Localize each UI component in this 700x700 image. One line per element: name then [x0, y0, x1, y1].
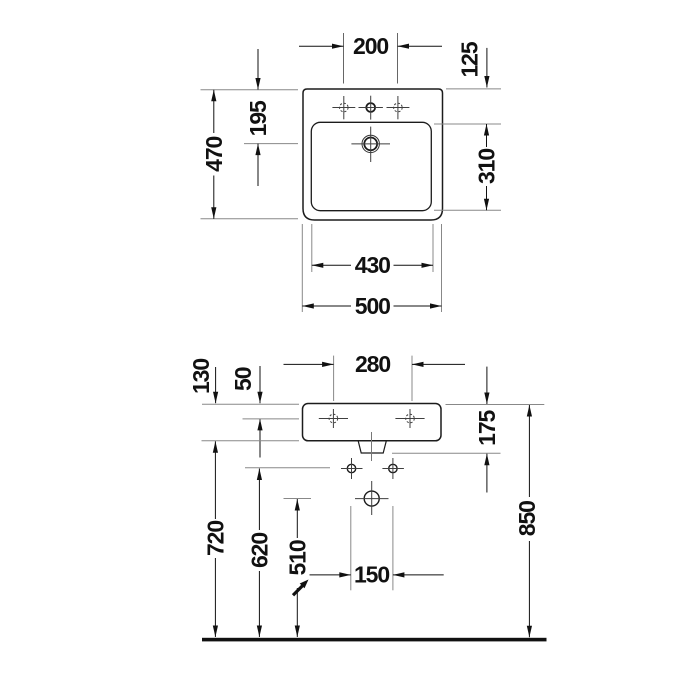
- svg-text:50: 50: [230, 367, 256, 391]
- extension line basin bottom level left: [202, 440, 300, 442]
- main outlet circle: [355, 481, 389, 515]
- faucet hole right (dashed): [387, 96, 410, 119]
- dimension 280 leaders and arrows: [284, 362, 466, 367]
- faucet hole center: [359, 96, 383, 120]
- svg-text:200: 200: [353, 33, 388, 59]
- dimension 850 line and arrows: [527, 405, 532, 637]
- svg-text:130: 130: [188, 359, 214, 394]
- supply connection right: [382, 458, 404, 479]
- extension line basin top right: [446, 88, 501, 90]
- svg-text:280: 280: [355, 351, 390, 377]
- dimension 310 extension lines: [434, 124, 501, 210]
- mounting hole left (dashed cross): [319, 409, 348, 428]
- extension line trapezoid bottom level right: [392, 452, 501, 454]
- faucet hole left (dashed): [332, 96, 355, 119]
- svg-text:150: 150: [354, 562, 389, 588]
- extension line mounting hole level left: [243, 418, 300, 420]
- svg-text:850: 850: [514, 501, 540, 536]
- extension line elevation top right: [446, 404, 545, 406]
- drain trapezoid: [358, 441, 386, 453]
- dimension 500 line and arrows: [302, 303, 441, 308]
- svg-text:430: 430: [355, 252, 390, 278]
- dimension 720 line and arrows: [213, 441, 218, 637]
- dimension 50 lower line: [257, 419, 262, 458]
- svg-text:310: 310: [474, 149, 500, 184]
- supply connection left: [341, 458, 363, 479]
- dimension 470 line and arrows: [211, 90, 216, 219]
- outer basin outline: [303, 89, 443, 220]
- dimension 195 upper segment: [255, 49, 260, 90]
- dimension 130 line: [213, 367, 218, 403]
- dimension 125 line: [484, 48, 489, 88]
- dimension 150 extension lines: [351, 506, 393, 590]
- svg-text:720: 720: [202, 521, 228, 556]
- dimension 195 lower segment: [255, 144, 260, 186]
- floor line: [202, 638, 547, 642]
- svg-text:500: 500: [355, 293, 390, 319]
- dimension 150 leaders and arrows: [310, 572, 444, 577]
- dimension 500 extension lines: [302, 224, 441, 312]
- mounting hole right (dashed cross): [395, 409, 424, 428]
- dimension 200 leaders and arrows: [299, 44, 442, 49]
- dimension 310 line and arrows: [484, 124, 489, 210]
- extension line elevation top left: [202, 403, 299, 405]
- inner bowl outline: [311, 122, 431, 210]
- svg-text:125: 125: [457, 41, 483, 77]
- dimension 430 extension lines: [312, 224, 433, 272]
- dimension 430 line and arrows: [312, 263, 433, 268]
- basin front profile: [303, 404, 442, 441]
- svg-text:195: 195: [245, 100, 271, 136]
- dimension 620 line and arrows: [257, 469, 262, 638]
- dimension 175 upper line: [484, 367, 489, 404]
- dimension 50 upper line: [257, 366, 262, 403]
- svg-text:620: 620: [246, 533, 272, 568]
- dimension 510 line and arrows: [295, 499, 300, 637]
- dimension 175 lower line: [484, 454, 489, 493]
- drain center line: [371, 432, 373, 461]
- drain (plan): [351, 127, 390, 162]
- dimension 195 reference line at drain level: [244, 143, 298, 145]
- svg-text:470: 470: [201, 136, 227, 171]
- dimension 200 extension lines: [344, 33, 398, 84]
- svg-text:510: 510: [284, 540, 310, 575]
- svg-text:175: 175: [474, 409, 500, 445]
- slope arrow: [293, 580, 309, 596]
- reference line outlet level: [284, 498, 312, 500]
- extension line supply level: [245, 467, 330, 469]
- dimension 280 extension lines: [334, 356, 412, 401]
- dimension 470 extension lines: [201, 90, 299, 219]
